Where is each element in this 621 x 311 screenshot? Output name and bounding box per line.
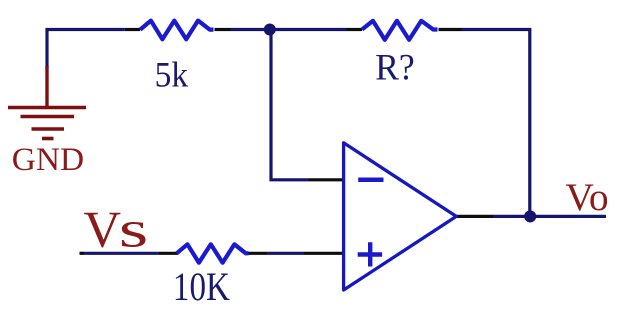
- svg-text:5k: 5k: [155, 55, 189, 95]
- svg-text:s: s: [119, 202, 149, 259]
- svg-text:10K: 10K: [173, 264, 230, 309]
- svg-text:Vo: Vo: [565, 175, 608, 219]
- svg-text:GND: GND: [12, 142, 84, 178]
- svg-text:V: V: [84, 202, 122, 259]
- svg-text:R?: R?: [375, 48, 415, 89]
